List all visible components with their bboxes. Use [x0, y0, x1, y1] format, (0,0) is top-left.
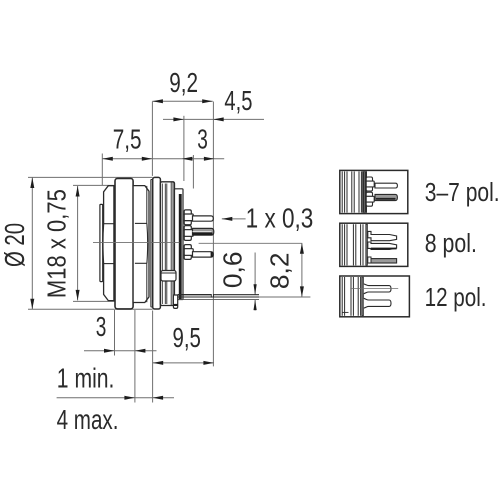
svg-text:9,2: 9,2	[169, 68, 198, 99]
svg-text:0,6: 0,6	[218, 252, 248, 289]
svg-text:8,2: 8,2	[264, 253, 294, 290]
svg-text:4,5: 4,5	[224, 86, 252, 117]
svg-text:9,5: 9,5	[172, 323, 200, 354]
svg-text:8 pol.: 8 pol.	[425, 229, 477, 259]
svg-text:3: 3	[197, 124, 208, 156]
svg-text:12 pol.: 12 pol.	[425, 284, 487, 313]
svg-text:1 x 0,3: 1 x 0,3	[246, 203, 314, 234]
svg-text:3–7 pol.: 3–7 pol.	[425, 178, 500, 208]
svg-text:1 min.: 1 min.	[57, 364, 115, 394]
svg-text:M18 x 0,75: M18 x 0,75	[43, 189, 72, 298]
svg-text:Ø 20: Ø 20	[0, 223, 31, 267]
svg-text:4 max.: 4 max.	[57, 405, 119, 436]
svg-text:3: 3	[96, 311, 107, 343]
svg-text:7,5: 7,5	[113, 125, 142, 156]
